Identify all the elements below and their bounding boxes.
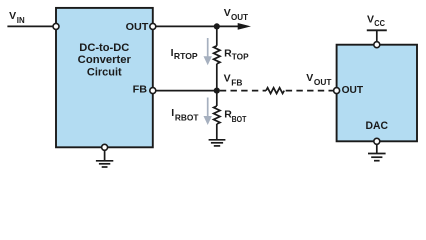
- svg-text:DC-to-DC: DC-to-DC: [79, 42, 129, 54]
- svg-text:OUT: OUT: [231, 12, 249, 22]
- svg-text:I: I: [171, 107, 174, 119]
- svg-text:OUT: OUT: [342, 84, 364, 96]
- svg-text:DAC: DAC: [366, 120, 389, 132]
- svg-text:FB: FB: [133, 84, 148, 96]
- svg-text:RBOT: RBOT: [175, 112, 199, 122]
- svg-text:BOT: BOT: [232, 114, 247, 124]
- svg-text:V: V: [9, 10, 16, 22]
- svg-text:IN: IN: [17, 15, 25, 25]
- svg-text:V: V: [224, 7, 231, 19]
- svg-text:TOP: TOP: [232, 51, 249, 61]
- svg-text:OUT: OUT: [314, 77, 332, 87]
- svg-text:OUT: OUT: [126, 21, 149, 33]
- svg-text:V: V: [367, 14, 374, 26]
- svg-text:CC: CC: [374, 18, 385, 28]
- svg-text:V: V: [306, 72, 313, 84]
- svg-text:Circuit: Circuit: [87, 67, 122, 79]
- svg-text:Converter: Converter: [78, 54, 132, 66]
- svg-text:RTOP: RTOP: [174, 51, 198, 61]
- svg-text:V: V: [224, 73, 231, 85]
- svg-text:FB: FB: [231, 77, 242, 87]
